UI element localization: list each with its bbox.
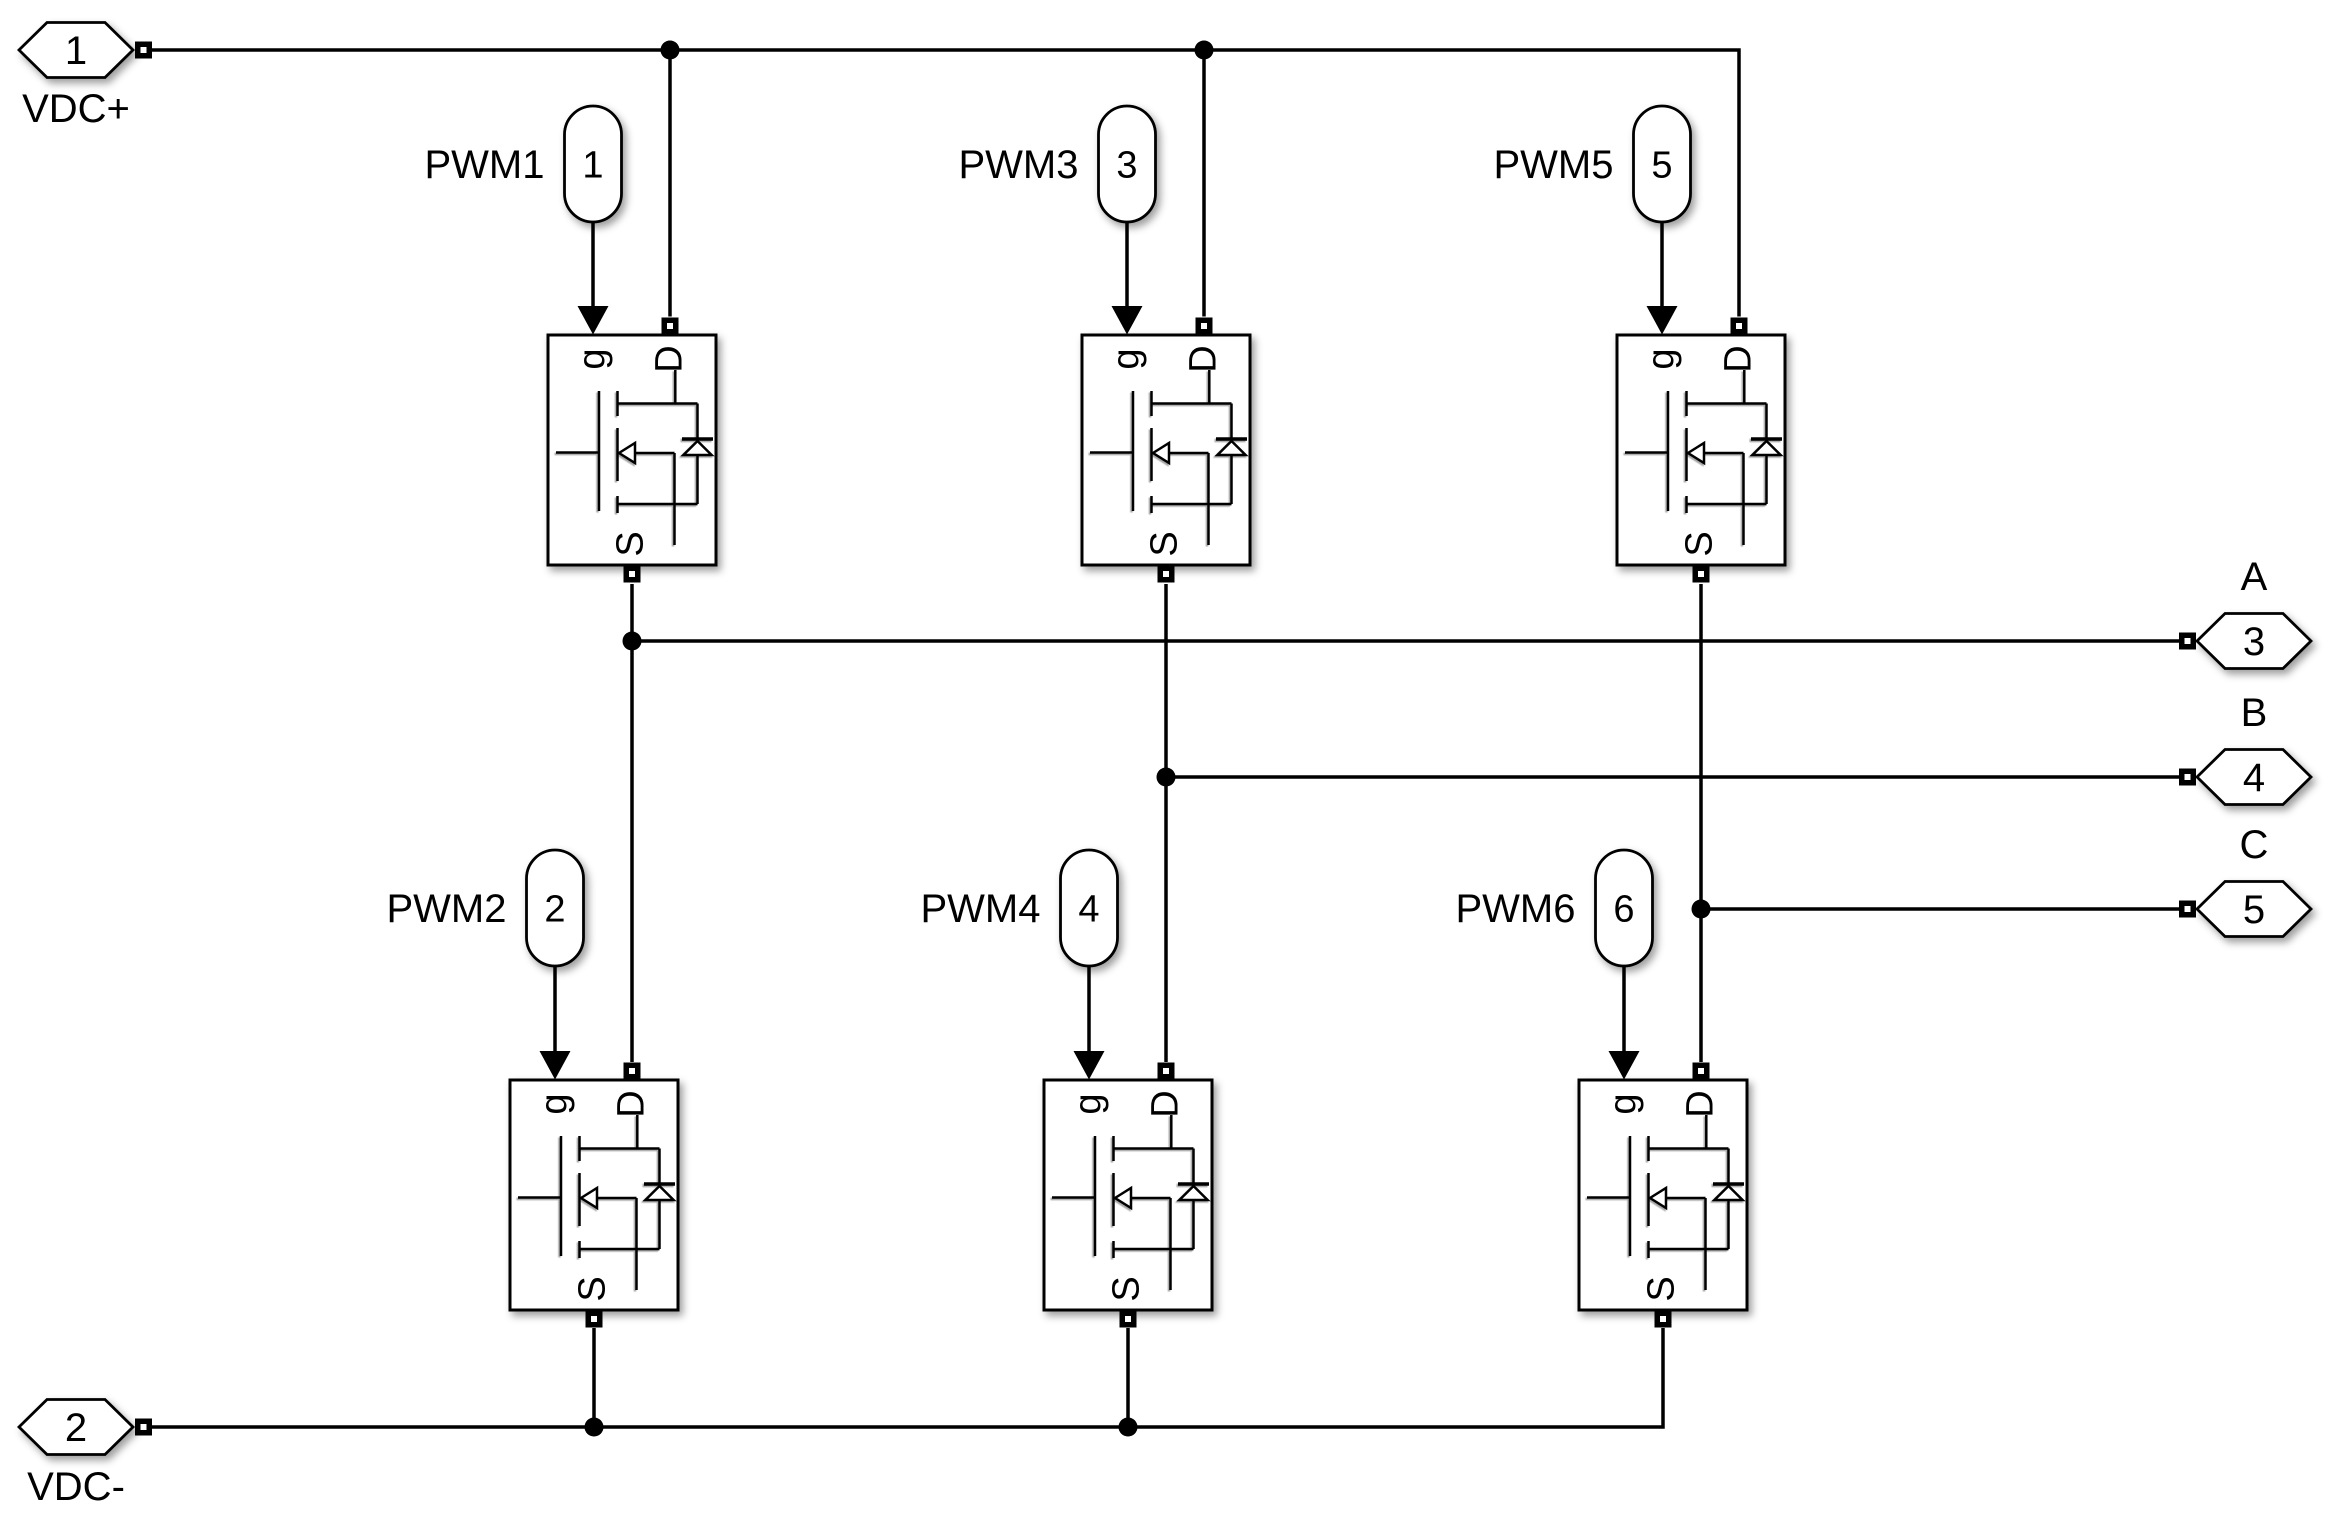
- transistor Q3 (MOSFET with body diode, g/D/S): [1082, 306, 1250, 583]
- svg-text:VDC+: VDC+: [22, 87, 130, 131]
- wire phase C vertical (Q5.S to Q6.D): [1699, 584, 1703, 1062]
- svg-text:5: 5: [2243, 888, 2265, 932]
- output port 5 (C) connector pin: [2179, 901, 2196, 918]
- svg-text:2: 2: [65, 1406, 87, 1450]
- transistor Q1 (MOSFET with body diode, g/D/S): [548, 306, 716, 583]
- output port 4 (B) hexagon: [2197, 750, 2311, 805]
- wire PWM6 to Q6 gate: [1622, 966, 1626, 1051]
- wire PWM2 to Q2 gate: [553, 966, 557, 1051]
- input port 5 (PWM5) stadium: [1634, 106, 1691, 222]
- node VDC+/Q1.D junction (junction dot): [661, 41, 680, 60]
- input port 2 (PWM2) stadium: [527, 850, 584, 966]
- node VDC-/Q2.S junction (junction dot): [585, 1418, 604, 1437]
- wire Q4 source to VDC- bus: [1126, 1328, 1130, 1427]
- svg-text:PWM6: PWM6: [1456, 887, 1576, 931]
- svg-text:4: 4: [1078, 889, 1099, 931]
- output port 5 (C) hexagon: [2197, 882, 2311, 937]
- svg-text:1: 1: [582, 145, 603, 187]
- node phase C junction (junction dot): [1692, 900, 1711, 919]
- svg-text:1: 1: [65, 29, 87, 73]
- svg-text:C: C: [2240, 823, 2269, 867]
- wire Q2 source to VDC- bus: [592, 1328, 596, 1427]
- output port 4 (B) connector pin: [2179, 769, 2196, 786]
- wire phase A vertical (Q1.S to Q2.D): [630, 584, 634, 1062]
- wire phase B to output port: [1166, 775, 2179, 779]
- input port 2 (VDC-) hexagon: [19, 1400, 133, 1455]
- wire phase C to output port: [1701, 907, 2179, 911]
- wire phase A to output port: [632, 639, 2179, 643]
- input port 4 (PWM4) stadium: [1061, 850, 1118, 966]
- wire phase B vertical (Q3.S to Q4.D): [1164, 584, 1168, 1062]
- output port 3 (A) hexagon: [2197, 614, 2311, 669]
- transistor Q6 (MOSFET with body diode, g/D/S): [1579, 1051, 1747, 1328]
- wire PWM3 to Q3 gate: [1125, 222, 1129, 306]
- svg-text:3: 3: [2243, 620, 2265, 664]
- svg-text:PWM2: PWM2: [387, 887, 507, 931]
- node phase B junction (junction dot): [1157, 768, 1176, 787]
- output port 3 (A) connector pin: [2179, 633, 2196, 650]
- transistor Q4 (MOSFET with body diode, g/D/S): [1044, 1051, 1212, 1328]
- svg-text:3: 3: [1116, 145, 1137, 187]
- node VDC+/Q3.D junction (junction dot): [1195, 41, 1214, 60]
- svg-text:4: 4: [2243, 756, 2265, 800]
- node VDC-/Q4.S junction (junction dot): [1119, 1418, 1138, 1437]
- wire VDC+ bus (port1 to Q5 drain): [152, 50, 1739, 317]
- svg-text:VDC-: VDC-: [27, 1465, 125, 1509]
- node phase A junction (junction dot): [623, 632, 642, 651]
- input port 1 (VDC+) hexagon: [19, 23, 133, 78]
- port 1 connector pin: [135, 42, 152, 59]
- transistor Q5 (MOSFET with body diode, g/D/S): [1617, 306, 1785, 583]
- port 2 connector pin: [135, 1419, 152, 1436]
- wire VDC+ bus drop to Q1 drain: [668, 50, 672, 317]
- svg-text:PWM4: PWM4: [921, 887, 1041, 931]
- transistor Q2 (MOSFET with body diode, g/D/S): [510, 1051, 678, 1328]
- wire PWM1 to Q1 gate: [591, 222, 595, 306]
- svg-text:B: B: [2241, 691, 2268, 735]
- input port 6 (PWM6) stadium: [1596, 850, 1653, 966]
- svg-text:2: 2: [544, 889, 565, 931]
- svg-text:PWM1: PWM1: [425, 143, 545, 187]
- svg-text:6: 6: [1613, 889, 1634, 931]
- wire VDC- bus (port2 to Q6 source): [152, 1328, 1663, 1427]
- wire VDC+ bus drop to Q3 drain: [1202, 50, 1206, 317]
- wire PWM5 to Q5 gate: [1660, 222, 1664, 306]
- svg-text:PWM5: PWM5: [1494, 143, 1614, 187]
- svg-text:5: 5: [1651, 145, 1672, 187]
- input port 3 (PWM3) stadium: [1099, 106, 1156, 222]
- svg-text:A: A: [2241, 555, 2268, 599]
- input port 1 (PWM1) stadium: [565, 106, 622, 222]
- wire PWM4 to Q4 gate: [1087, 966, 1091, 1051]
- svg-text:PWM3: PWM3: [959, 143, 1079, 187]
